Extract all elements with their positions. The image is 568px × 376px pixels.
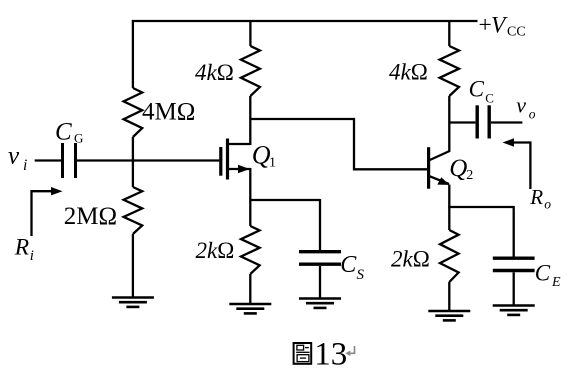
label RS 2k: [196, 238, 235, 263]
svg-text:v: v: [8, 142, 20, 169]
svg-text:R: R: [529, 185, 543, 209]
wire RS to ground: [249, 274, 251, 304]
label RG1 4M: [142, 98, 195, 125]
svg-text:R: R: [14, 235, 29, 261]
power label +Vcc: [479, 12, 526, 39]
svg-text:C: C: [55, 119, 72, 146]
svg-text:V: V: [491, 13, 508, 39]
svg-text:Q: Q: [449, 155, 467, 182]
label RC 4k: [389, 59, 428, 84]
ground under RG2: [112, 298, 154, 307]
label Q1: [252, 141, 276, 171]
wire Q2 emitter vertical: [448, 185, 450, 231]
svg-text:C: C: [469, 77, 485, 102]
svg-text:i: i: [30, 248, 34, 264]
resistor RS 2k: [241, 226, 260, 274]
label RD 4k: [195, 60, 234, 85]
svg-text:v: v: [516, 93, 526, 118]
wire rail to RD: [249, 20, 251, 46]
wire CG to gate of Q1: [77, 159, 219, 161]
label RE 2k: [391, 246, 430, 271]
wire emitter node horizontal to CE: [448, 206, 513, 208]
wire rail to RG1: [132, 20, 134, 88]
capacitor CC: [477, 105, 489, 138]
label CC: [469, 77, 494, 106]
transistor Q2: [429, 147, 450, 189]
ground under RE: [428, 311, 470, 320]
wire Q1 source vertical: [249, 168, 251, 226]
wire +Vcc top rail: [132, 20, 478, 22]
svg-text:C: C: [485, 90, 494, 105]
ground under RS: [229, 304, 271, 313]
label vo: [516, 93, 536, 122]
svg-text:E: E: [551, 275, 561, 290]
wire coupling drain to base of Q2: [250, 119, 427, 169]
arrow Ri input resistance: [32, 187, 63, 236]
svg-text:4MΩ: 4MΩ: [142, 98, 195, 125]
label CG: [55, 119, 83, 146]
svg-text:o: o: [544, 197, 551, 212]
wire RE to ground: [448, 282, 450, 311]
resistor RE 2k: [440, 230, 459, 282]
wire input vi to CG: [35, 159, 61, 161]
label CE: [535, 261, 561, 290]
caption figure 13: [294, 337, 355, 373]
svg-text:CC: CC: [507, 24, 526, 39]
ground under CE: [493, 306, 535, 315]
capacitor CE: [493, 206, 535, 306]
svg-text:C: C: [340, 252, 357, 278]
transistor Q1: [221, 139, 251, 180]
svg-text:C: C: [535, 261, 551, 286]
wire CC to output vo: [491, 121, 522, 123]
wire RG2 to ground: [132, 234, 134, 298]
label vi: [8, 142, 27, 174]
wire RG1 to gate node: [132, 137, 134, 162]
svg-text:13: 13: [314, 337, 347, 373]
svg-text:4kΩ: 4kΩ: [195, 60, 234, 85]
label Ro: [529, 185, 551, 212]
wire Q1 drain vertical: [249, 96, 251, 145]
capacitor CS: [299, 199, 341, 299]
svg-text:2: 2: [466, 168, 473, 183]
wire collector node to CC: [449, 121, 475, 123]
label Q2: [449, 155, 473, 183]
resistor RD 4k: [241, 46, 260, 96]
svg-text:i: i: [23, 157, 27, 174]
wire source node horizontal to CS: [249, 199, 320, 201]
svg-text:2MΩ: 2MΩ: [64, 203, 117, 230]
wire Q2 collector vertical: [448, 96, 450, 152]
svg-text:1: 1: [269, 156, 276, 171]
svg-text:+: +: [479, 12, 492, 38]
svg-text:4kΩ: 4kΩ: [389, 59, 428, 84]
svg-text:G: G: [74, 131, 83, 146]
wire gate node to RG2: [132, 160, 134, 187]
label RG2 2M: [64, 203, 117, 230]
svg-text:2kΩ: 2kΩ: [196, 238, 235, 263]
resistor RG1 4M: [124, 88, 143, 137]
resistor RG2 2M: [124, 187, 143, 234]
resistor RC 4k: [440, 46, 459, 96]
label Ri: [14, 235, 34, 264]
svg-text:o: o: [529, 106, 536, 121]
svg-text:Q: Q: [252, 141, 271, 170]
label CS: [340, 252, 364, 283]
ground under CS: [299, 299, 341, 308]
svg-text:2kΩ: 2kΩ: [391, 246, 430, 271]
wire rail to RC: [448, 20, 450, 46]
capacitor CG: [63, 143, 76, 178]
arrow Ro output resistance: [503, 138, 531, 189]
svg-text:S: S: [357, 267, 365, 283]
